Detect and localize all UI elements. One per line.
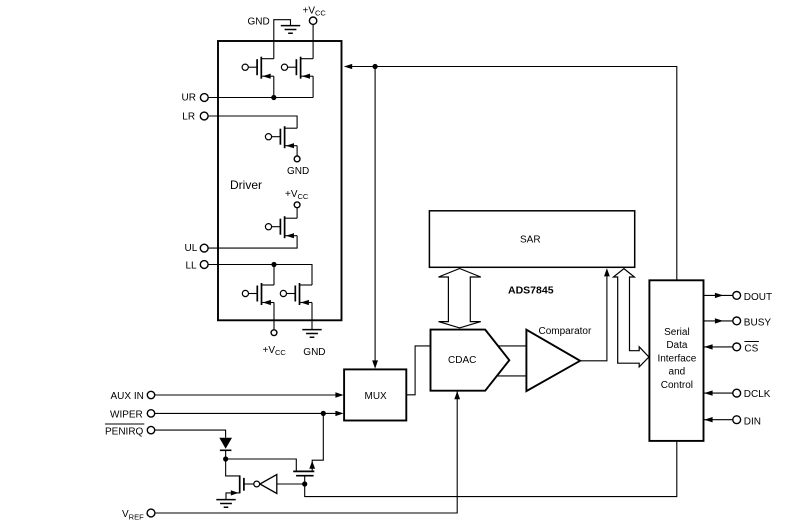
- svg-text:DCLK: DCLK: [744, 389, 771, 400]
- svg-text:ADS7845: ADS7845: [508, 285, 554, 297]
- svg-text:GND: GND: [303, 347, 325, 358]
- svg-text:PENIRQ: PENIRQ: [105, 426, 144, 437]
- svg-text:CS: CS: [744, 344, 758, 355]
- svg-text:Comparator: Comparator: [539, 326, 592, 337]
- svg-text:CDAC: CDAC: [448, 355, 476, 366]
- svg-text:GND: GND: [248, 17, 270, 28]
- svg-text:Control: Control: [661, 380, 693, 391]
- svg-text:Interface: Interface: [657, 353, 696, 364]
- svg-text:LR: LR: [182, 112, 195, 123]
- svg-text:SAR: SAR: [520, 235, 541, 246]
- svg-text:Serial: Serial: [664, 327, 690, 338]
- svg-text:UL: UL: [185, 243, 198, 254]
- svg-text:Data: Data: [666, 340, 688, 351]
- svg-text:DIN: DIN: [744, 416, 761, 427]
- svg-text:DOUT: DOUT: [744, 292, 772, 303]
- svg-text:LL: LL: [186, 261, 198, 272]
- svg-text:BUSY: BUSY: [744, 318, 772, 329]
- svg-text:AUX IN: AUX IN: [111, 391, 144, 402]
- svg-text:Driver: Driver: [230, 178, 262, 192]
- svg-text:WIPER: WIPER: [110, 409, 143, 420]
- svg-text:and: and: [669, 367, 686, 378]
- svg-text:MUX: MUX: [365, 391, 388, 402]
- svg-text:UR: UR: [182, 93, 196, 104]
- svg-text:GND: GND: [287, 166, 309, 177]
